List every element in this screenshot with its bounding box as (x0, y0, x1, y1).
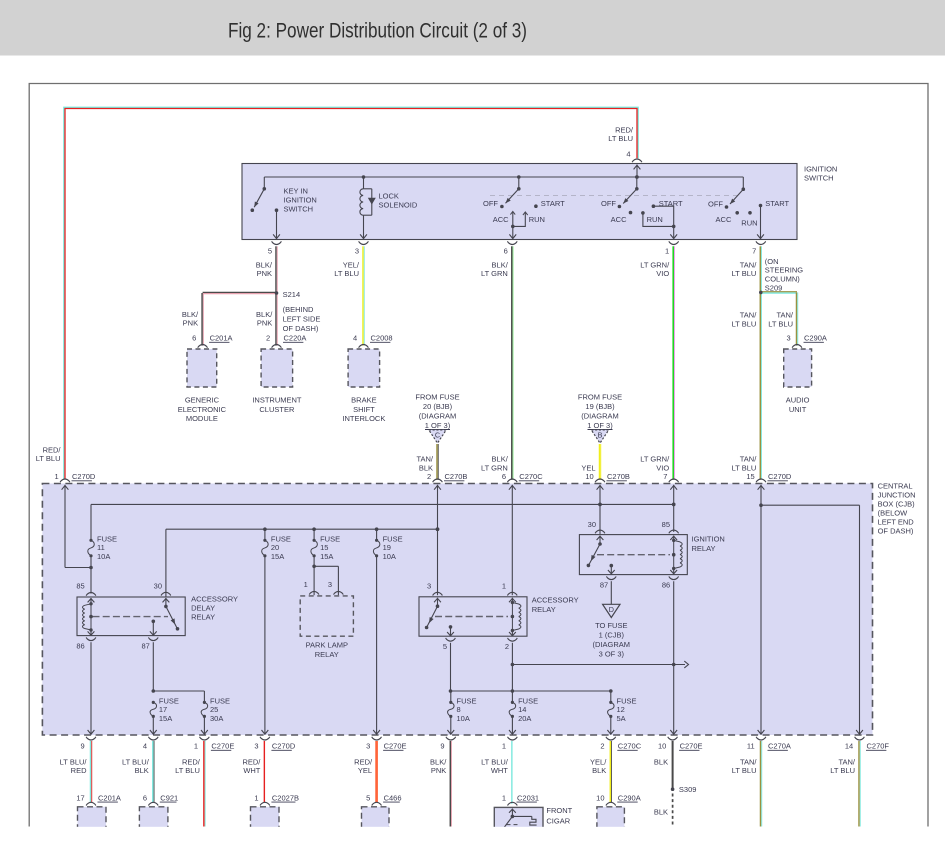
svg-text:86: 86 (662, 580, 670, 589)
svg-text:RELAY: RELAY (532, 605, 556, 614)
svg-text:20A: 20A (518, 714, 531, 723)
svg-text:1: 1 (665, 247, 669, 256)
svg-text:LT GRN: LT GRN (481, 269, 508, 278)
svg-text:FUSE: FUSE (518, 697, 538, 706)
svg-text:6: 6 (192, 334, 196, 343)
svg-text:FUSE: FUSE (457, 697, 477, 706)
svg-text:RELAY: RELAY (191, 612, 215, 621)
svg-text:RED/: RED/ (43, 446, 62, 455)
svg-text:BLK: BLK (654, 808, 668, 817)
svg-text:C270B: C270B (445, 472, 468, 481)
svg-text:87: 87 (141, 642, 149, 651)
svg-text:4: 4 (353, 334, 357, 343)
svg-text:S214: S214 (283, 290, 301, 299)
svg-text:1: 1 (502, 742, 506, 751)
svg-text:LT BLU: LT BLU (732, 766, 757, 775)
svg-text:WHT: WHT (491, 766, 508, 775)
svg-text:C290A: C290A (618, 793, 641, 802)
svg-text:BLK: BLK (592, 766, 606, 775)
svg-text:20: 20 (271, 543, 279, 552)
svg-text:TAN/: TAN/ (416, 455, 433, 464)
svg-text:LT BLU: LT BLU (768, 319, 793, 328)
svg-text:LT GRN/: LT GRN/ (640, 261, 670, 270)
svg-text:LT BLU: LT BLU (732, 463, 757, 472)
svg-text:7: 7 (752, 247, 756, 256)
svg-text:LT GRN/: LT GRN/ (640, 455, 670, 464)
svg-text:IGNITION: IGNITION (804, 165, 837, 174)
svg-text:FUSE: FUSE (320, 535, 340, 544)
svg-text:8: 8 (457, 705, 461, 714)
svg-text:RED/: RED/ (615, 126, 634, 135)
svg-text:10: 10 (585, 472, 593, 481)
svg-text:C270E: C270E (384, 742, 407, 751)
svg-text:ACC: ACC (493, 215, 509, 224)
svg-text:BLK: BLK (419, 463, 433, 472)
svg-text:1: 1 (304, 580, 308, 589)
svg-text:CIGAR: CIGAR (546, 817, 570, 826)
svg-text:3: 3 (254, 742, 258, 751)
svg-text:OF DASH): OF DASH) (878, 527, 914, 536)
svg-text:TAN/: TAN/ (740, 758, 757, 767)
svg-text:1: 1 (194, 742, 198, 751)
svg-text:4: 4 (143, 742, 147, 751)
svg-text:30: 30 (154, 582, 162, 591)
svg-text:LT BLU: LT BLU (732, 269, 757, 278)
svg-text:3 OF 3): 3 OF 3) (599, 650, 625, 659)
svg-text:RUN: RUN (647, 215, 663, 224)
svg-text:START: START (765, 199, 789, 208)
svg-text:YEL: YEL (581, 463, 595, 472)
svg-text:19: 19 (383, 543, 391, 552)
svg-text:LT BLU: LT BLU (732, 319, 757, 328)
svg-text:85: 85 (662, 520, 670, 529)
svg-text:14: 14 (518, 705, 526, 714)
svg-text:S309: S309 (679, 785, 697, 794)
svg-text:9: 9 (440, 742, 444, 751)
svg-text:JUNCTION: JUNCTION (878, 491, 916, 500)
svg-text:86: 86 (76, 642, 84, 651)
svg-text:C466: C466 (384, 793, 402, 802)
svg-text:C270F: C270F (867, 742, 890, 751)
svg-text:15A: 15A (320, 552, 333, 561)
svg-text:VIO: VIO (656, 269, 669, 278)
svg-text:C270A: C270A (768, 742, 791, 751)
svg-text:C270B: C270B (607, 472, 630, 481)
svg-text:STEERING: STEERING (765, 266, 804, 275)
svg-text:OFF: OFF (708, 199, 723, 208)
svg-text:3: 3 (787, 334, 791, 343)
svg-text:10: 10 (658, 742, 666, 751)
svg-text:11: 11 (747, 742, 755, 751)
svg-text:3: 3 (355, 247, 359, 256)
svg-text:1: 1 (502, 793, 506, 802)
svg-text:BLK/: BLK/ (492, 455, 509, 464)
svg-text:C270D: C270D (768, 472, 792, 481)
svg-text:3: 3 (366, 742, 370, 751)
svg-text:SWITCH: SWITCH (804, 173, 834, 182)
svg-text:DELAY: DELAY (191, 604, 215, 613)
svg-text:VIO: VIO (656, 463, 669, 472)
svg-text:1 OF 3): 1 OF 3) (425, 421, 451, 430)
svg-text:LEFT END: LEFT END (878, 518, 915, 527)
svg-text:10A: 10A (97, 552, 110, 561)
svg-text:3: 3 (328, 580, 332, 589)
svg-text:PARK LAMP: PARK LAMP (306, 641, 348, 650)
svg-text:RUN: RUN (741, 218, 757, 227)
svg-text:(BEHIND: (BEHIND (283, 305, 314, 314)
svg-text:C2031: C2031 (517, 793, 539, 802)
svg-text:4: 4 (626, 150, 630, 159)
svg-text:INSTRUMENT: INSTRUMENT (252, 396, 302, 405)
svg-text:C290A: C290A (804, 334, 827, 343)
svg-text:BLK/: BLK/ (256, 310, 273, 319)
svg-text:ACCESSORY: ACCESSORY (191, 595, 238, 604)
svg-text:17: 17 (76, 793, 84, 802)
svg-text:FUSE: FUSE (271, 535, 291, 544)
svg-text:LT BLU: LT BLU (175, 766, 200, 775)
svg-text:FUSE: FUSE (97, 535, 117, 544)
svg-text:BLK: BLK (654, 758, 668, 767)
svg-text:C220A: C220A (284, 334, 307, 343)
svg-text:RED: RED (71, 766, 87, 775)
svg-text:ACCESSORY: ACCESSORY (532, 596, 579, 605)
svg-text:YEL/: YEL/ (590, 758, 607, 767)
svg-text:SOLENOID: SOLENOID (379, 200, 418, 209)
svg-text:85: 85 (76, 582, 84, 591)
svg-text:5A: 5A (617, 714, 626, 723)
svg-text:RUN: RUN (529, 215, 545, 224)
svg-text:OFF: OFF (601, 199, 616, 208)
svg-text:IGNITION: IGNITION (692, 535, 725, 544)
svg-text:2: 2 (505, 642, 509, 651)
svg-text:FRONT: FRONT (546, 806, 572, 815)
svg-text:PNK: PNK (257, 319, 272, 328)
svg-text:C270E: C270E (211, 742, 234, 751)
svg-text:OF DASH): OF DASH) (283, 324, 319, 333)
svg-text:CLUSTER: CLUSTER (259, 405, 295, 414)
svg-text:AUDIO: AUDIO (786, 396, 810, 405)
svg-text:LT GRN: LT GRN (481, 463, 508, 472)
svg-text:BLK/: BLK/ (492, 261, 509, 270)
svg-text:5: 5 (268, 247, 272, 256)
svg-text:2: 2 (266, 334, 270, 343)
svg-text:BOX (CJB): BOX (CJB) (878, 500, 916, 509)
svg-text:1 OF 3): 1 OF 3) (587, 421, 613, 430)
svg-text:25: 25 (210, 705, 218, 714)
svg-text:FUSE: FUSE (159, 697, 179, 706)
svg-text:10A: 10A (457, 714, 470, 723)
svg-text:20 (BJB): 20 (BJB) (423, 402, 453, 411)
svg-text:Fig 2: Power Distribution Circ: Fig 2: Power Distribution Circuit (2 of … (228, 19, 527, 43)
svg-text:10: 10 (596, 793, 604, 802)
svg-text:15A: 15A (271, 552, 284, 561)
svg-text:TAN/: TAN/ (740, 261, 757, 270)
svg-text:6: 6 (502, 472, 506, 481)
svg-text:C270C: C270C (618, 742, 642, 751)
svg-text:GENERIC: GENERIC (185, 396, 220, 405)
svg-text:LT BLU: LT BLU (608, 134, 633, 143)
svg-text:87: 87 (600, 580, 608, 589)
svg-text:30A: 30A (210, 714, 223, 723)
svg-text:TO FUSE: TO FUSE (595, 621, 627, 630)
svg-text:1: 1 (502, 581, 506, 590)
svg-text:PNK: PNK (431, 766, 446, 775)
svg-text:LT BLU: LT BLU (830, 766, 855, 775)
svg-text:15: 15 (746, 472, 754, 481)
svg-text:2: 2 (427, 472, 431, 481)
svg-text:C270D: C270D (272, 742, 296, 751)
svg-text:LEFT SIDE: LEFT SIDE (283, 315, 321, 324)
svg-text:FROM FUSE: FROM FUSE (578, 393, 622, 402)
svg-text:30: 30 (588, 520, 596, 529)
svg-text:C270C: C270C (519, 472, 543, 481)
svg-text:B: B (598, 431, 603, 440)
svg-text:(DIAGRAM: (DIAGRAM (419, 412, 457, 421)
svg-text:RED/: RED/ (242, 758, 261, 767)
svg-text:TAN/: TAN/ (776, 311, 793, 320)
svg-text:C201A: C201A (210, 334, 233, 343)
svg-text:BLK/: BLK/ (430, 758, 447, 767)
svg-text:ELECTRONIC: ELECTRONIC (178, 405, 227, 414)
svg-text:SWITCH: SWITCH (284, 204, 314, 213)
svg-text:C270E: C270E (680, 742, 703, 751)
svg-text:5: 5 (366, 793, 370, 802)
svg-text:15: 15 (320, 543, 328, 552)
svg-text:1: 1 (254, 793, 258, 802)
svg-text:TAN/: TAN/ (740, 455, 757, 464)
svg-text:TAN/: TAN/ (740, 311, 757, 320)
svg-text:WHT: WHT (243, 766, 260, 775)
svg-text:YEL/: YEL/ (343, 261, 360, 270)
svg-text:17: 17 (159, 705, 167, 714)
svg-text:RED/: RED/ (354, 758, 373, 767)
svg-text:START: START (541, 199, 565, 208)
svg-text:SHIFT: SHIFT (353, 405, 375, 414)
svg-text:OFF: OFF (483, 199, 498, 208)
svg-text:(ON: (ON (765, 257, 779, 266)
svg-text:FUSE: FUSE (210, 697, 230, 706)
svg-text:ACC: ACC (716, 215, 732, 224)
svg-text:C2027B: C2027B (272, 793, 299, 802)
svg-text:MODULE: MODULE (186, 414, 218, 423)
svg-text:LOCK: LOCK (379, 191, 399, 200)
svg-text:C270D: C270D (72, 472, 96, 481)
svg-text:RELAY: RELAY (315, 650, 339, 659)
svg-text:7: 7 (663, 472, 667, 481)
svg-text:9: 9 (81, 742, 85, 751)
svg-text:BRAKE: BRAKE (351, 396, 376, 405)
svg-text:ACC: ACC (611, 215, 627, 224)
svg-text:RELAY: RELAY (692, 544, 716, 553)
svg-text:YEL: YEL (358, 766, 372, 775)
svg-text:6: 6 (504, 247, 508, 256)
svg-text:C: C (435, 431, 440, 440)
svg-text:KEY IN: KEY IN (284, 186, 308, 195)
svg-text:LT BLU: LT BLU (36, 454, 61, 463)
svg-text:IGNITION: IGNITION (284, 195, 317, 204)
svg-text:FROM FUSE: FROM FUSE (415, 393, 459, 402)
svg-text:2: 2 (600, 742, 604, 751)
svg-text:PNK: PNK (257, 269, 272, 278)
svg-text:6: 6 (143, 793, 147, 802)
svg-text:START: START (659, 199, 683, 208)
svg-text:PNK: PNK (183, 319, 198, 328)
svg-text:14: 14 (845, 742, 853, 751)
svg-text:C201A: C201A (98, 793, 121, 802)
svg-text:12: 12 (617, 705, 625, 714)
svg-text:BLK: BLK (135, 766, 149, 775)
svg-text:1 (CJB): 1 (CJB) (599, 631, 625, 640)
svg-text:LT BLU/: LT BLU/ (122, 758, 150, 767)
svg-text:C921: C921 (160, 793, 178, 802)
svg-text:C2008: C2008 (371, 334, 393, 343)
svg-text:(BELOW: (BELOW (878, 509, 909, 518)
svg-text:FUSE: FUSE (617, 697, 637, 706)
svg-text:BLK/: BLK/ (256, 261, 273, 270)
svg-text:LT BLU/: LT BLU/ (481, 758, 509, 767)
svg-text:LT BLU/: LT BLU/ (60, 758, 88, 767)
svg-text:UNIT: UNIT (789, 405, 807, 414)
svg-text:LT BLU: LT BLU (334, 269, 359, 278)
svg-text:(DIAGRAM: (DIAGRAM (581, 412, 619, 421)
svg-text:INTERLOCK: INTERLOCK (342, 414, 385, 423)
svg-text:11: 11 (97, 543, 105, 552)
svg-text:CENTRAL: CENTRAL (878, 482, 913, 491)
svg-text:TAN/: TAN/ (838, 758, 855, 767)
svg-text:15A: 15A (159, 714, 172, 723)
svg-text:RED/: RED/ (182, 758, 201, 767)
svg-text:BLK/: BLK/ (182, 310, 199, 319)
svg-text:D: D (609, 605, 614, 614)
svg-text:FUSE: FUSE (383, 535, 403, 544)
svg-text:10A: 10A (383, 552, 396, 561)
svg-text:1: 1 (55, 472, 59, 481)
svg-text:19 (BJB): 19 (BJB) (585, 402, 615, 411)
svg-text:COLUMN): COLUMN) (765, 275, 801, 284)
svg-text:(DIAGRAM: (DIAGRAM (593, 640, 631, 649)
svg-text:5: 5 (443, 642, 447, 651)
svg-text:3: 3 (427, 581, 431, 590)
